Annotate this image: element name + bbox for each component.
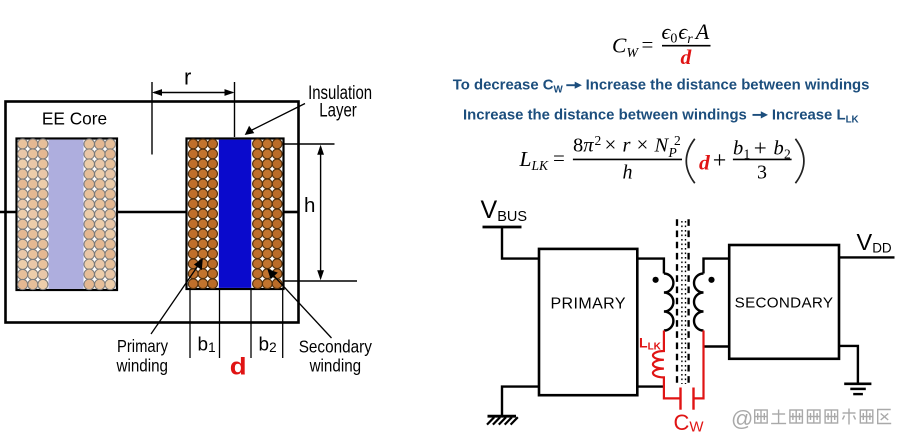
extension line b1 left	[189, 289, 191, 358]
transformer secondary winding	[694, 274, 703, 331]
wire primary box to winding top	[637, 259, 664, 274]
wire capacitor to secondary winding bottom (red)	[694, 331, 704, 399]
left winding block (primary bobbin)	[17, 139, 118, 291]
core center-limb line (right stub)	[283, 211, 299, 214]
right block secondary winding turns	[253, 139, 282, 289]
svg-text:h: h	[304, 194, 315, 217]
svg-text:Primary: Primary	[117, 336, 168, 356]
transformer core dashed line left	[676, 219, 678, 385]
svg-text:×: ×	[637, 132, 649, 156]
earth ground (secondary)	[844, 384, 871, 394]
wire secondary winding top to secondary box	[704, 259, 730, 274]
svg-text:ϵ0ϵrA: ϵ0ϵrA	[662, 19, 710, 47]
transformer primary winding	[664, 274, 674, 331]
svg-text:8π: 8π	[573, 134, 594, 156]
watermark @ sign	[731, 406, 753, 431]
right block insulation layer (blue)	[219, 140, 252, 288]
wire VBUS to primary box	[502, 227, 539, 259]
label h	[304, 194, 315, 217]
formula Cw = e0 er A / d	[612, 19, 711, 69]
svg-text:h: h	[623, 161, 633, 183]
wire secondary box to VDD	[839, 256, 895, 258]
wire secondary lower terminal to secondary box	[704, 345, 730, 347]
svg-text:d: d	[681, 45, 693, 69]
svg-text:2: 2	[674, 133, 681, 148]
svg-text:d: d	[699, 151, 711, 175]
capacitor Cw right plate (red)	[692, 388, 694, 410]
label r	[184, 65, 191, 90]
leader arrow to primary winding	[151, 258, 203, 334]
svg-text:Increase the distance between: Increase the distance between windings	[586, 78, 870, 94]
svg-text:Secondary: Secondary	[299, 337, 372, 357]
label Llk (red)	[639, 335, 662, 353]
svg-text:Increase the distance between: Increase the distance between windings	[463, 107, 747, 123]
label b2	[259, 335, 277, 356]
label d (red)	[230, 354, 247, 380]
text line: To decrease Cw	[453, 78, 870, 96]
dimension r: left extension tick (core centerline)	[151, 82, 153, 155]
transformer core dashed line right	[687, 219, 689, 385]
svg-text:×: ×	[605, 132, 617, 156]
polarity dot (secondary)	[708, 277, 714, 283]
svg-text:r: r	[623, 134, 632, 156]
right block primary winding turns	[188, 139, 217, 289]
dimension h: bottom reference line	[285, 280, 358, 282]
extension line d right / b2 left	[250, 289, 252, 358]
svg-text:@: @	[731, 406, 753, 431]
label Cw (red)	[674, 410, 705, 433]
svg-text:To decrease CW: To decrease CW	[453, 78, 564, 96]
svg-text:=: =	[553, 146, 565, 170]
label b1	[198, 335, 216, 356]
svg-text:N: N	[654, 134, 670, 156]
core center-limb line (between winding blocks)	[116, 211, 187, 214]
electrostatic shield dotted line left	[681, 221, 683, 384]
wire primary box bottom to Llk junction	[637, 385, 665, 387]
capacitor Cw left plate (red)	[679, 388, 681, 410]
svg-text:SECONDARY: SECONDARY	[735, 295, 834, 312]
left block insulation (lavender)	[49, 140, 84, 289]
wire primary box to chassis ground	[502, 387, 539, 416]
dimension h: double arrow	[317, 145, 324, 280]
block PRIMARY U1	[539, 249, 637, 395]
leader arrow to secondary winding	[267, 269, 331, 338]
wire secondary box to earth ground	[839, 346, 858, 384]
leakage inductor Llk (red)	[653, 331, 681, 399]
block SECONDARY U2	[729, 245, 839, 359]
extension line b2 right	[282, 289, 284, 358]
extension line b1 right / d left	[219, 289, 221, 358]
VBUS rail bar	[483, 226, 522, 229]
svg-text:2: 2	[595, 133, 602, 148]
chassis ground (primary)	[487, 416, 518, 424]
polarity dot (primary)	[653, 277, 659, 283]
svg-text:winding: winding	[116, 356, 168, 376]
core center-limb line (left stub)	[0, 211, 17, 214]
formula Llk	[519, 132, 804, 183]
svg-text:b: b	[774, 138, 784, 160]
label EE Core	[42, 109, 107, 129]
dimension r: right extension tick (insulation centerline)	[234, 82, 236, 137]
svg-text:=: =	[642, 33, 654, 57]
text line: Increase the distance	[463, 107, 859, 125]
svg-text:winding: winding	[309, 356, 361, 376]
svg-text:d: d	[230, 354, 247, 380]
label Insulation Layer	[308, 83, 372, 122]
dimension r: arrow line	[152, 89, 235, 96]
label Secondary winding	[299, 337, 372, 376]
svg-text:EE Core: EE Core	[42, 109, 107, 129]
svg-text:PRIMARY: PRIMARY	[550, 296, 625, 313]
watermark pseudo-CJK glyphs	[755, 409, 892, 425]
svg-text:+: +	[754, 135, 767, 160]
svg-text:b: b	[733, 138, 743, 160]
left block primary turns (circles)	[18, 139, 48, 290]
svg-text:3: 3	[757, 161, 767, 183]
net VBUS label	[481, 196, 528, 225]
svg-text:+: +	[713, 148, 727, 174]
label Primary winding	[116, 336, 169, 376]
net VDD label	[857, 229, 892, 256]
electrostatic shield dotted line right	[685, 221, 687, 384]
leader arrow to insulation layer	[245, 104, 305, 136]
right winding block (bobbin)	[187, 139, 284, 290]
left block secondary turns (circles)	[84, 139, 116, 290]
dimension h: top reference line	[285, 143, 335, 145]
svg-text:Layer: Layer	[319, 101, 357, 122]
EE core outline	[6, 102, 299, 323]
svg-text:r: r	[184, 65, 191, 90]
